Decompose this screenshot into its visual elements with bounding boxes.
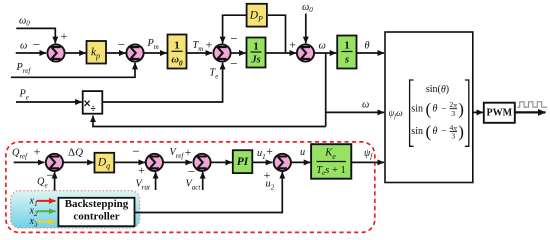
svg-text:−: − <box>118 37 125 52</box>
svg-text:4π: 4π <box>450 123 458 132</box>
wire omega into S1 <box>16 52 46 54</box>
svg-text:+: + <box>206 37 213 51</box>
svg-text:−: − <box>441 126 447 137</box>
svg-text:ΔQ: ΔQ <box>68 147 83 159</box>
wire omega feedback into divider bottom <box>93 116 326 127</box>
svg-text:θ: θ <box>365 41 370 52</box>
summing junction S4 <box>297 44 314 61</box>
svg-text:+: + <box>266 144 273 158</box>
summing junction S5 <box>46 154 63 171</box>
svg-text:+: + <box>185 145 192 159</box>
wire PWM output <box>515 111 546 113</box>
block PI <box>233 150 253 173</box>
svg-text:ω: ω <box>362 100 369 111</box>
svg-text:ψfω: ψfω <box>389 109 404 120</box>
wire S1 to kp <box>65 52 86 54</box>
wire backstepping output u2 into S8 bottom <box>135 172 283 213</box>
svg-text:θ: θ <box>433 103 438 114</box>
damping block DP <box>247 4 267 27</box>
svg-text:3: 3 <box>451 132 455 141</box>
summing junction S7 <box>193 154 210 171</box>
block 1/Js <box>247 38 266 68</box>
wire S4 to 1/s <box>314 52 336 54</box>
wire S7 to PI <box>211 161 232 163</box>
wire transform to PWM <box>473 111 483 113</box>
svg-text:(: ( <box>426 99 432 118</box>
wire Dq to S6 <box>114 161 145 163</box>
svg-text:sin: sin <box>411 126 423 137</box>
svg-text:): ) <box>458 99 464 118</box>
svg-text:+: + <box>138 163 145 177</box>
wire S6 to S7 <box>163 161 192 163</box>
svg-text:−: − <box>188 164 195 179</box>
wire x1 red arrow <box>37 200 56 202</box>
svg-text:1: 1 <box>253 41 259 53</box>
svg-text:3: 3 <box>451 109 455 118</box>
svg-text:+: + <box>34 145 41 159</box>
summing junction S1 <box>47 44 64 61</box>
svg-text:Js: Js <box>250 55 260 66</box>
backstepping outer cyan box <box>11 191 140 228</box>
wire S5 to Dq <box>63 161 94 163</box>
backstepping controller block <box>58 198 134 226</box>
block PWM <box>484 103 515 123</box>
svg-text:sin(θ): sin(θ) <box>426 84 449 95</box>
svg-text:+: + <box>289 37 296 51</box>
wire Pref into S2 bottom <box>11 63 135 78</box>
svg-text:−: − <box>132 144 139 159</box>
wire omega0 into S1 top <box>16 28 55 43</box>
svg-text:s: s <box>344 55 349 66</box>
matrix row sin(theta - 4pi/3) <box>411 122 464 141</box>
wire S8 to Ke block <box>291 161 310 163</box>
wire S2 to 1/omega0 block <box>144 52 167 54</box>
wire PI to S8 <box>252 161 272 163</box>
svg-text:ω: ω <box>20 41 27 52</box>
svg-text:PWM: PWM <box>487 108 513 119</box>
svg-text:2π: 2π <box>450 100 458 109</box>
wire x2 green arrow <box>37 210 56 212</box>
wire kp to S2 <box>106 52 126 54</box>
wire Pe into divider <box>16 101 82 103</box>
svg-text:(: ( <box>426 122 432 141</box>
wire 1/omega0 to S3 <box>187 52 213 54</box>
wire Qe into S5 bottom <box>54 172 56 191</box>
divider block <box>83 91 103 114</box>
block 1/omega0 <box>168 35 187 69</box>
wire omega branch down <box>325 53 327 127</box>
wire divider output Te into S3 bottom <box>102 63 222 102</box>
matrix right bracket <box>465 80 469 146</box>
summing junction S8 <box>274 154 291 171</box>
svg-text:+: + <box>61 29 68 43</box>
gain block kp <box>87 41 107 64</box>
transform block <box>385 32 473 183</box>
wire DP output into S3 top <box>223 15 247 43</box>
matrix row sin(theta - 2pi/3) <box>411 99 464 118</box>
summing junction S3 <box>213 44 230 61</box>
wire theta into transform block <box>357 52 385 54</box>
svg-text:−: − <box>33 37 40 52</box>
svg-text:PI: PI <box>237 156 249 168</box>
svg-text:1: 1 <box>344 40 350 52</box>
wire x3 yellow arrow <box>37 221 56 223</box>
svg-text:Tes + 1: Tes + 1 <box>316 165 345 178</box>
wire Vact into S7 bottom <box>202 172 204 190</box>
wire omega into transform block <box>326 111 384 113</box>
svg-text:controller: controller <box>73 210 119 222</box>
block Ke/(Tes+1) <box>311 144 351 179</box>
svg-text:−: − <box>230 31 237 46</box>
matrix left bracket <box>410 80 414 146</box>
wire omega0 into S4 top <box>305 14 307 44</box>
summing junction S2 <box>126 44 143 61</box>
summing junction S6 <box>146 154 163 171</box>
svg-text:θ: θ <box>433 126 438 137</box>
wire S3 to 1/Js <box>231 52 246 54</box>
block Dq <box>95 153 115 173</box>
wire 1/Js to S4 <box>266 52 297 54</box>
svg-text:Backstepping: Backstepping <box>65 198 129 210</box>
svg-text:1: 1 <box>174 40 180 52</box>
svg-text:): ) <box>458 122 464 141</box>
outer red dashed boundary <box>6 142 375 233</box>
svg-text:ω: ω <box>319 41 326 52</box>
block 1/s <box>337 36 356 69</box>
svg-text:−: − <box>46 168 53 183</box>
wire Ke to transform block <box>351 161 384 163</box>
svg-text:u: u <box>300 147 305 158</box>
pwm square wave icon <box>518 102 548 107</box>
wire Qref into S5 <box>14 161 45 163</box>
wire Vrat into S6 bottom <box>155 172 157 190</box>
wire node to DP input <box>268 15 286 53</box>
svg-text:sin: sin <box>411 103 423 114</box>
svg-text:−: − <box>230 56 237 71</box>
svg-text:−: − <box>441 103 447 114</box>
